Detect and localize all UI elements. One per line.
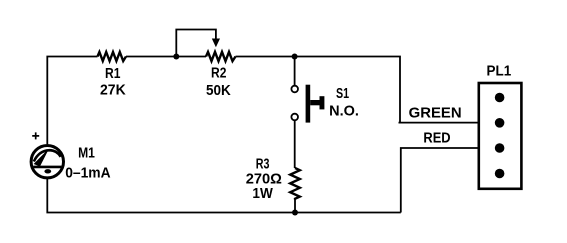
svg-text:27K: 27K (100, 82, 126, 99)
wire R2 to node B (236, 56, 295, 58)
meter M1 (31, 132, 111, 181)
node C junction dot (292, 210, 298, 216)
wire RED lead from PL1 pin 3 down to bottom wire (401, 148, 500, 213)
svg-text:R2: R2 (211, 64, 227, 81)
PL1 pin 1 (495, 93, 505, 103)
svg-text:1W: 1W (252, 185, 273, 202)
svg-text:0–1mA: 0–1mA (65, 165, 111, 182)
wire R1 to node A (126, 56, 176, 58)
resistor R3 element (246, 155, 300, 202)
PL1 pin 2 (495, 118, 505, 128)
resistor R2 element (206, 52, 236, 99)
PL1 pin 3 (495, 143, 505, 153)
wire node B to top-right corner down to GREEN (295, 57, 400, 123)
svg-text:S1: S1 (336, 84, 349, 101)
wire meter to bottom-left corner and bottom wire (47, 178, 401, 213)
resistor R1 (98, 52, 127, 99)
switch S1 N.O. pushbutton (291, 57, 358, 123)
PL1 pin 4 (495, 169, 505, 179)
svg-text:N.O.: N.O. (329, 103, 359, 119)
svg-text:RED: RED (423, 128, 450, 145)
wire top-left corner and left vertical to meter (47, 57, 97, 145)
connector PL1 (479, 63, 522, 189)
wire S1 to R3 (294, 120, 296, 168)
svg-text:50K: 50K (206, 82, 231, 99)
svg-text:R1: R1 (105, 65, 121, 82)
potentiometer R2 wiper loop and arrow (176, 30, 220, 57)
wire node A to R2 (176, 56, 206, 58)
wire GREEN lead to PL1 pin 2 (399, 122, 500, 124)
svg-text:GREEN: GREEN (409, 104, 462, 121)
node B junction dot (292, 54, 298, 60)
svg-text:PL1: PL1 (487, 63, 512, 80)
svg-text:M1: M1 (78, 144, 95, 161)
wire R3 to bottom wire (294, 200, 296, 213)
node A junction dot (173, 54, 179, 60)
